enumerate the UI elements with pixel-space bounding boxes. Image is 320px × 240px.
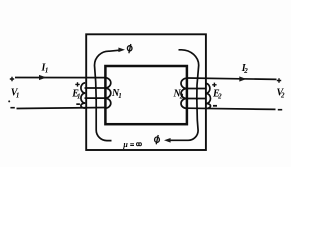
svg-text:V1: V1 xyxy=(11,87,20,99)
svg-text:μ: μ xyxy=(122,140,128,149)
svg-text:E1: E1 xyxy=(71,88,80,100)
svg-text:I2: I2 xyxy=(241,63,248,75)
svg-text:V2: V2 xyxy=(277,88,285,100)
svg-text:E2: E2 xyxy=(212,89,222,101)
svg-text:I1: I1 xyxy=(41,63,49,75)
svg-text:N1: N1 xyxy=(111,88,122,100)
